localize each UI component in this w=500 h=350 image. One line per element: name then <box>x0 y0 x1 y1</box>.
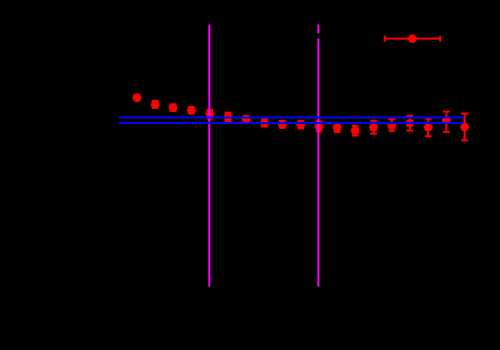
data point 4 errorbar <box>188 107 195 113</box>
data point 6 errorbar <box>225 113 232 122</box>
data point 1 errorbar <box>134 95 141 100</box>
legend star marker <box>408 34 417 43</box>
data point 18 star marker <box>442 116 451 125</box>
vertical marker line 2 (fit range end), gap where black legend text overlaps <box>317 25 319 287</box>
data point 3 star marker <box>169 103 178 112</box>
data point 18 errorbar <box>443 112 450 132</box>
data point 5 star marker <box>205 110 214 119</box>
data point 16 errorbar <box>406 116 413 131</box>
data point 6 star marker <box>224 113 233 122</box>
data point 14 errorbar <box>370 121 377 134</box>
vertical marker line 1 (fit range start) <box>208 25 210 287</box>
data point 15 errorbar <box>388 119 395 131</box>
data point 9 star marker <box>278 120 287 129</box>
data point 12 star marker <box>333 123 342 132</box>
data point 17 star marker <box>424 123 433 132</box>
data point 2 errorbar <box>152 101 159 108</box>
data point 13 star marker <box>351 126 360 135</box>
data point 10 errorbar <box>297 121 304 128</box>
fit line upper (blue) <box>119 116 464 118</box>
data point 12 errorbar <box>334 123 341 132</box>
data point 17 errorbar <box>425 119 432 137</box>
data point 13 errorbar <box>352 126 359 136</box>
data point 10 star marker <box>296 120 305 129</box>
data point 11 errorbar <box>316 121 323 131</box>
data point 16 star marker <box>405 119 414 128</box>
data point 14 star marker <box>369 123 378 132</box>
data point 3 errorbar <box>170 104 177 110</box>
data point 9 errorbar <box>279 121 286 128</box>
data point 4 star marker <box>187 106 196 115</box>
data point 19 star marker <box>460 123 469 132</box>
data point 11 star marker <box>315 122 324 131</box>
data point 2 star marker <box>151 100 160 109</box>
data point 7 star marker <box>242 115 251 124</box>
fit line lower (blue) <box>119 122 464 124</box>
data point 8 star marker <box>260 118 269 127</box>
data point 1 star marker <box>133 93 142 102</box>
data point 5 errorbar <box>206 110 213 119</box>
data point 8 errorbar <box>261 119 268 127</box>
data point 19 errorbar <box>461 114 468 141</box>
data point 7 errorbar <box>243 116 250 123</box>
legend errorbar sample line with end caps <box>385 36 441 42</box>
data point 15 star marker <box>387 121 396 130</box>
